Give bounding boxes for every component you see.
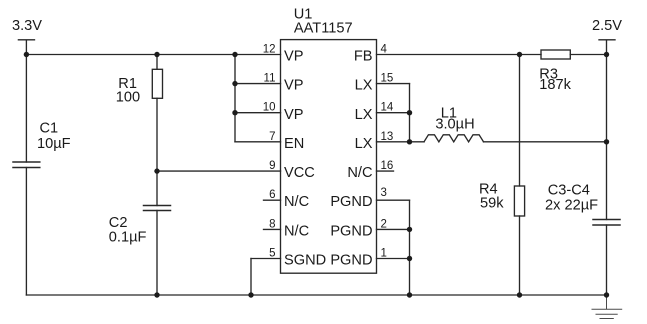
- svg-text:16: 16: [381, 160, 394, 172]
- wire VP bus vertical: [234, 55, 236, 142]
- svg-text:2x 22µF: 2x 22µF: [545, 198, 598, 214]
- svg-text:12: 12: [263, 44, 276, 56]
- op-amp U1 body (IC AAT1157): [281, 40, 377, 274]
- svg-text:13: 13: [381, 131, 394, 143]
- node junction PGND pin 2: [407, 227, 412, 232]
- svg-text:15: 15: [381, 73, 394, 85]
- svg-text:0.1µF: 0.1µF: [109, 230, 147, 246]
- wire pin 14 LX stub: [377, 112, 410, 114]
- svg-text:FB: FB: [354, 49, 373, 65]
- wire LX bus vertical: [409, 84, 411, 142]
- wire C1 bottom to ground rail: [25, 168, 27, 296]
- node junction VP bus top: [232, 52, 237, 57]
- svg-text:C3-C4: C3-C4: [548, 183, 590, 199]
- node junction ground R4: [517, 292, 522, 297]
- wire ground rail: [26, 294, 606, 296]
- node junction VP pin 10: [232, 110, 237, 115]
- node junction output mid: [604, 139, 609, 144]
- svg-text:VP: VP: [284, 49, 303, 65]
- node junction output top: [604, 52, 609, 57]
- wire SGND drop: [250, 259, 252, 296]
- svg-text:1: 1: [381, 248, 387, 260]
- wire C3-C4 bottom to ground: [606, 225, 608, 295]
- svg-text:6: 6: [269, 189, 275, 201]
- svg-text:LX: LX: [355, 78, 373, 94]
- svg-text:187k: 187k: [539, 77, 571, 93]
- wire R4 bottom to ground rail: [519, 216, 521, 295]
- node junction ground SGND: [248, 292, 253, 297]
- resistor R3: [541, 50, 570, 59]
- svg-text:N/C: N/C: [284, 223, 309, 239]
- svg-text:AAT1157: AAT1157: [294, 20, 353, 36]
- wire pin 6 stub: [264, 199, 281, 201]
- svg-text:100: 100: [116, 90, 140, 106]
- svg-text:4: 4: [381, 44, 388, 56]
- wire L1 to output rail: [484, 141, 607, 143]
- capacitor C2: [144, 206, 171, 211]
- wire pin 5 SGND stub: [251, 258, 281, 260]
- wire top 3.3V rail: [26, 54, 280, 56]
- wire pin 10 stub: [235, 112, 281, 114]
- wire FB line to divider: [377, 54, 542, 56]
- resistor R4: [514, 186, 524, 216]
- svg-text:VP: VP: [284, 107, 303, 123]
- svg-text:5: 5: [269, 248, 275, 260]
- svg-text:3: 3: [381, 187, 387, 199]
- wire PGND bus vertical: [409, 200, 411, 295]
- power terminal 2.5V: [599, 40, 615, 55]
- wire pin 8 stub: [264, 228, 281, 230]
- wire C2 bottom to ground rail: [156, 211, 158, 296]
- svg-text:59k: 59k: [480, 196, 504, 212]
- wire pin 15 LX stub: [377, 83, 410, 85]
- ground: [592, 295, 622, 319]
- node junction R1 top: [154, 52, 159, 57]
- node junction PGND pin 1: [407, 256, 412, 261]
- svg-text:11: 11: [264, 73, 276, 85]
- power terminal 3.3V: [18, 40, 34, 55]
- svg-text:N/C: N/C: [284, 194, 309, 210]
- wire pin 16 stub: [377, 170, 394, 172]
- wire R4 top from FB node: [519, 55, 521, 187]
- svg-text:LX: LX: [355, 136, 373, 152]
- svg-text:7: 7: [269, 131, 275, 143]
- wire left vertical to C1: [25, 55, 27, 163]
- wire VCC line: [157, 170, 281, 172]
- svg-text:14: 14: [381, 102, 394, 114]
- svg-text:10µF: 10µF: [37, 136, 71, 152]
- svg-text:PGND: PGND: [330, 223, 372, 239]
- wire pin 1 PGND stub: [377, 258, 410, 260]
- svg-text:VP: VP: [284, 78, 303, 94]
- wire VCC node to C2: [156, 171, 158, 205]
- svg-text:3.0µH: 3.0µH: [435, 117, 474, 133]
- svg-text:EN: EN: [284, 136, 304, 152]
- svg-text:2: 2: [381, 218, 387, 230]
- wire pin 13 LX stub: [377, 141, 410, 143]
- svg-text:VCC: VCC: [284, 165, 315, 181]
- svg-text:PGND: PGND: [330, 194, 372, 210]
- wire LX node to L1: [410, 141, 425, 143]
- node junction LX pin 14: [407, 110, 412, 115]
- capacitor C3-C4: [593, 220, 620, 226]
- svg-text:SGND: SGND: [284, 253, 326, 269]
- node junction 3.3V rail left: [24, 52, 29, 57]
- svg-text:C1: C1: [40, 121, 59, 137]
- wire pin 2 PGND stub: [377, 228, 410, 230]
- wire output vertical to C3-C4: [606, 55, 608, 220]
- wire R1 bottom to VCC node: [156, 98, 158, 171]
- node junction FB divider: [517, 52, 522, 57]
- node junction VP pin 11: [232, 81, 237, 86]
- svg-text:3.3V: 3.3V: [12, 18, 42, 34]
- node junction LX pin 13: [407, 139, 412, 144]
- capacitor C1: [13, 162, 40, 168]
- svg-text:PGND: PGND: [330, 253, 372, 269]
- svg-text:9: 9: [269, 160, 275, 172]
- node junction ground C2: [154, 292, 159, 297]
- wire R3 right to output node: [570, 54, 606, 56]
- wire pin 7 EN stub: [235, 141, 281, 143]
- node junction VCC: [154, 168, 159, 173]
- svg-text:N/C: N/C: [347, 165, 372, 181]
- inductor L1: [424, 135, 484, 142]
- node junction ground output: [604, 292, 609, 297]
- wire R1 top: [156, 55, 158, 70]
- svg-text:8: 8: [269, 218, 275, 230]
- wire pin 11 stub: [235, 83, 281, 85]
- node junction ground PGND: [407, 292, 412, 297]
- svg-text:2.5V: 2.5V: [592, 18, 622, 34]
- resistor R1: [152, 69, 162, 98]
- svg-text:10: 10: [263, 102, 276, 114]
- wire pin 3 PGND stub: [377, 199, 410, 201]
- svg-text:LX: LX: [355, 107, 373, 123]
